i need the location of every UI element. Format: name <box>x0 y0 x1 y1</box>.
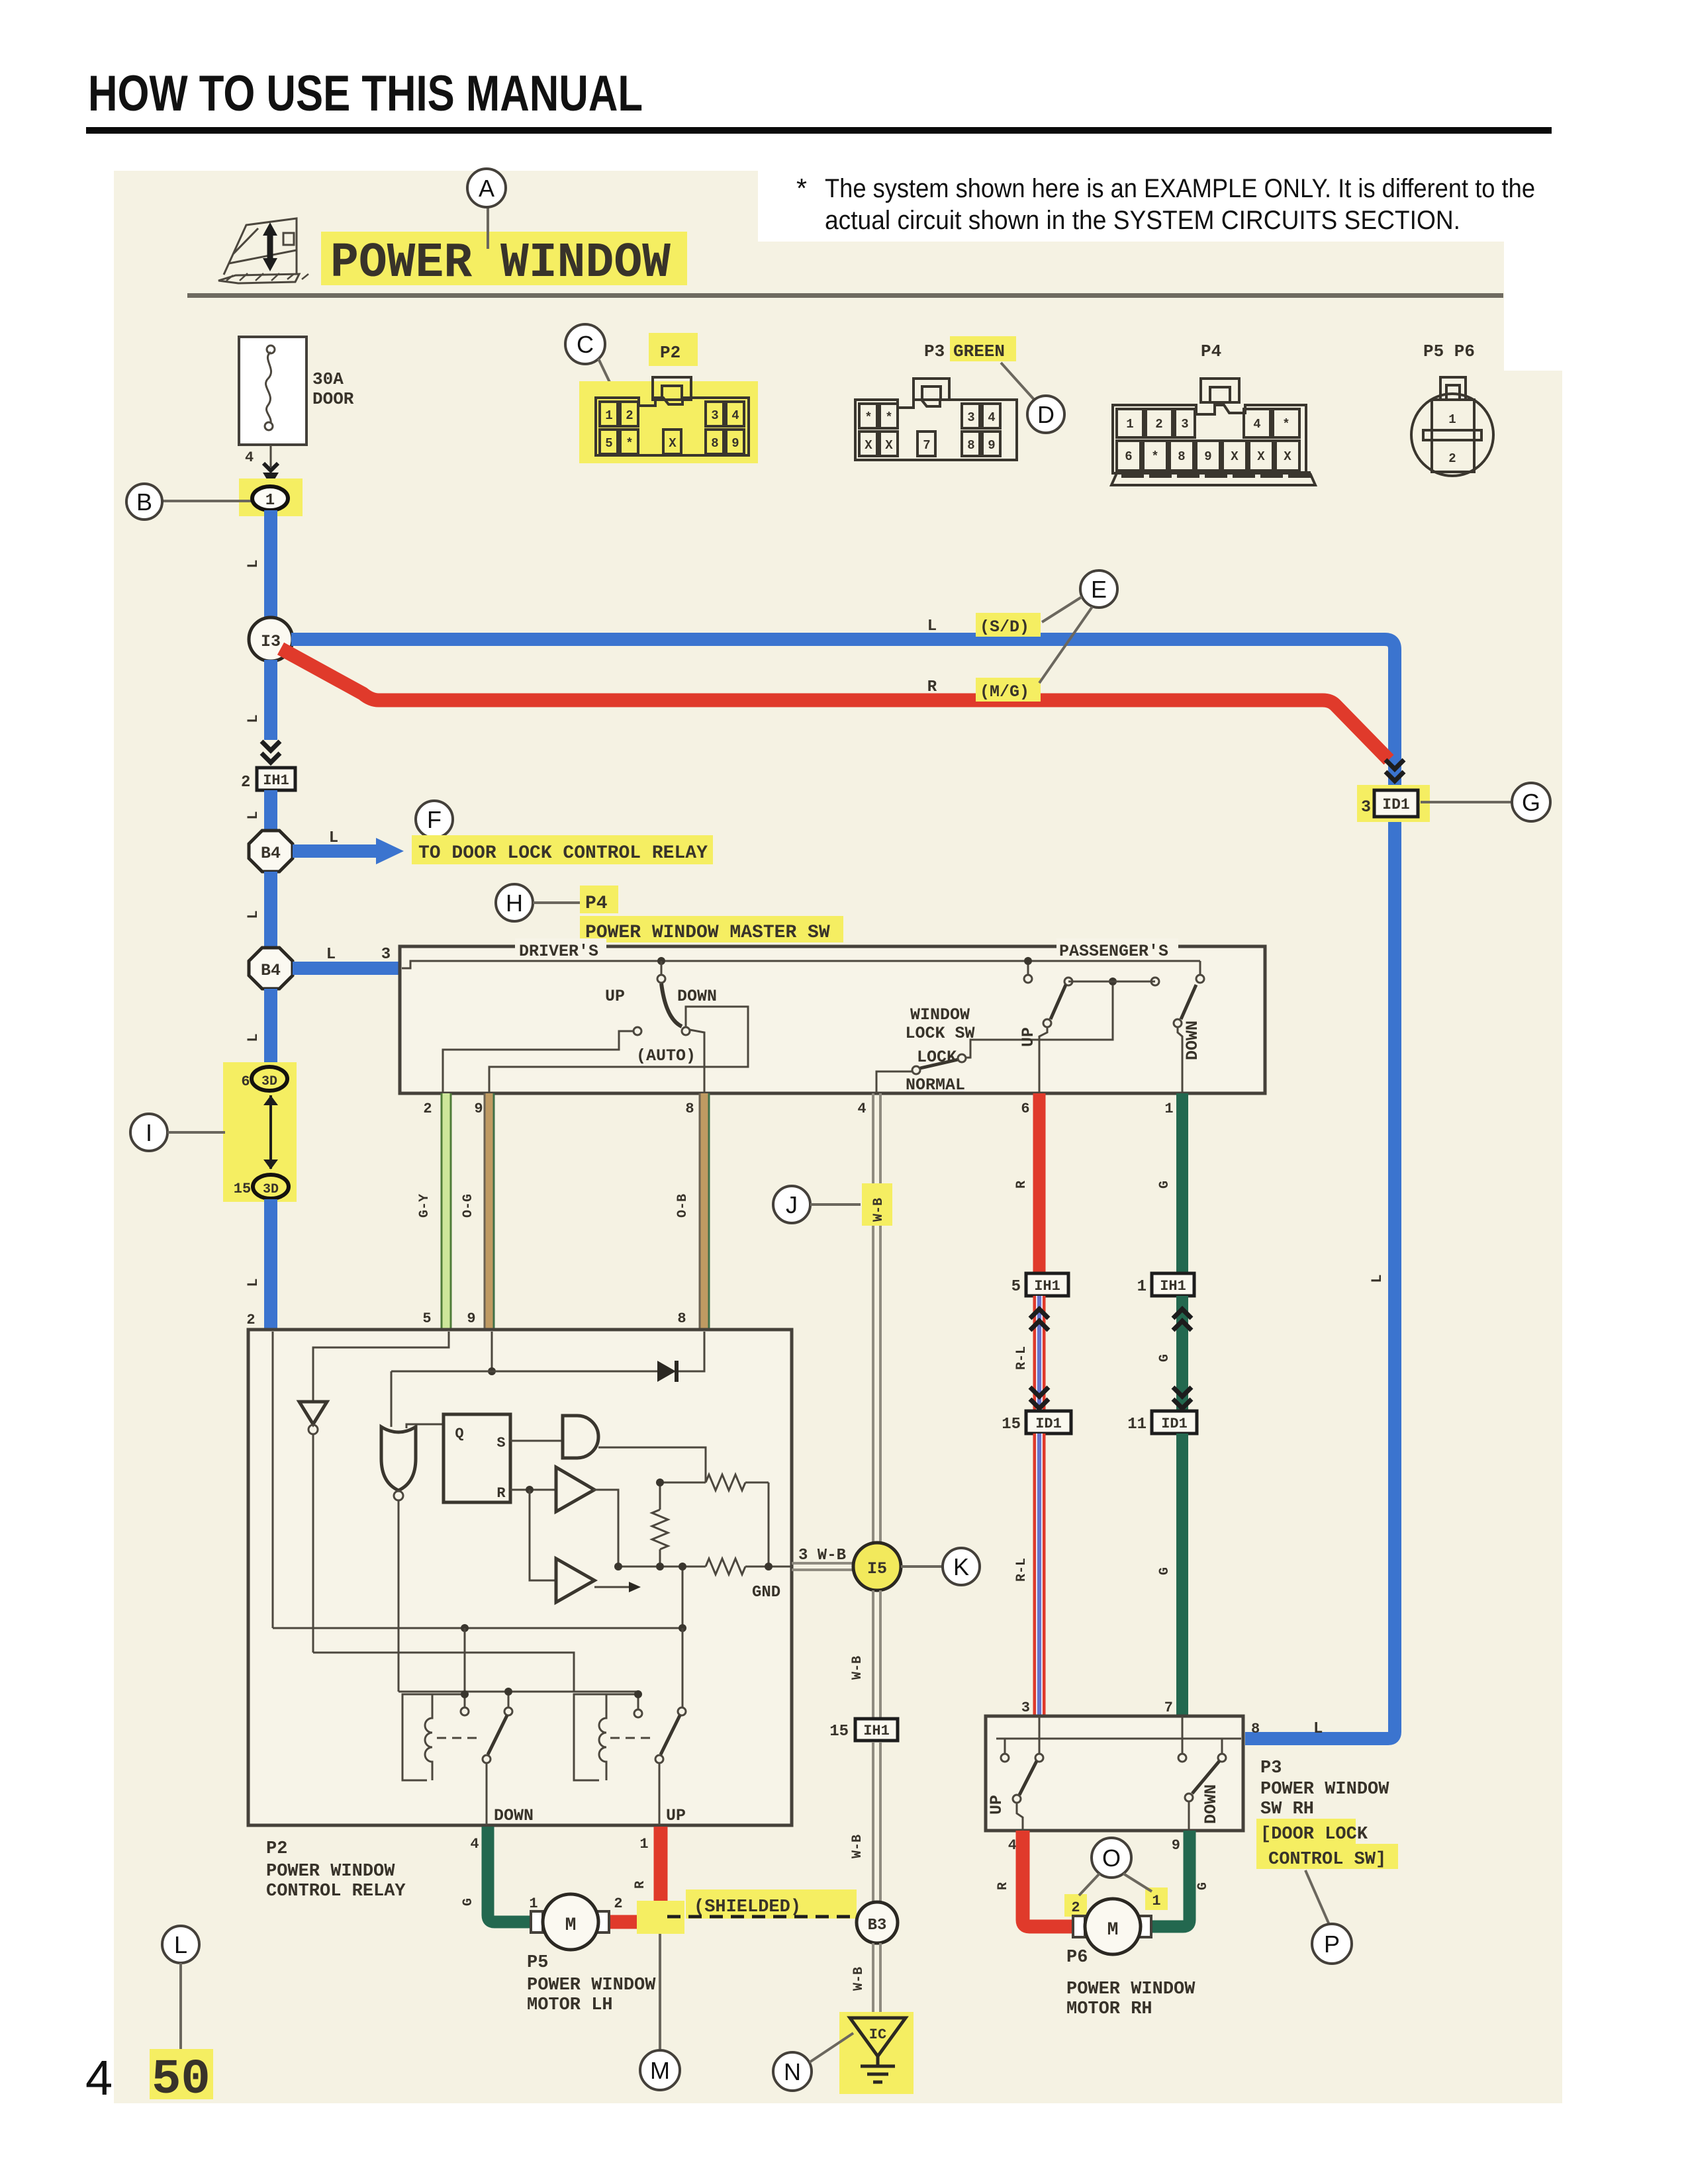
svg-text:5: 5 <box>422 1310 431 1327</box>
svg-text:G: G <box>1522 789 1540 816</box>
svg-text:2: 2 <box>1448 451 1456 466</box>
wire W-B pin4 down to I5 <box>873 1093 880 1543</box>
svg-text:4: 4 <box>988 410 995 425</box>
svg-text:1: 1 <box>605 408 612 423</box>
svg-text:*: * <box>796 173 807 203</box>
wire R-L striped ID1 down to RH switch pin 3 <box>1033 1433 1046 1716</box>
svg-text:GND: GND <box>752 1584 780 1602</box>
resistor R3 <box>706 1559 745 1574</box>
power window motor LH <box>531 1894 609 1950</box>
svg-text:2: 2 <box>614 1895 622 1912</box>
svg-text:L: L <box>326 946 336 964</box>
svg-text:[DOOR LOCK: [DOOR LOCK <box>1260 1825 1368 1844</box>
blue wire 3D down to relay pin 2 <box>264 1199 277 1330</box>
svg-text:B4: B4 <box>261 961 281 980</box>
svg-text:L: L <box>1369 1274 1385 1283</box>
circled H <box>496 884 533 921</box>
blue wire right column down to RH switch <box>1245 822 1395 1739</box>
svg-text:O-B: O-B <box>675 1194 690 1218</box>
svg-text:(AUTO): (AUTO) <box>636 1046 696 1066</box>
svg-text:4: 4 <box>1008 1837 1017 1854</box>
green wire IH1 to ID1 <box>1176 1296 1188 1410</box>
svg-text:DOOR: DOOR <box>312 389 354 409</box>
wire lock switch to passenger common <box>966 985 1113 1058</box>
relay coil L2 <box>574 1694 637 1780</box>
wire R-L striped IH1 to ID1 <box>1033 1296 1046 1410</box>
svg-text:UP: UP <box>1019 1027 1038 1047</box>
svg-text:30A: 30A <box>312 369 344 389</box>
connector P5/P6 round body <box>1411 377 1493 476</box>
chevrons above 11 ID1 <box>1173 1387 1192 1408</box>
svg-text:ID1: ID1 <box>1035 1416 1062 1432</box>
wire pin 8 to DOWN contact <box>690 1030 704 1093</box>
node I3 <box>249 617 293 661</box>
svg-text:L: L <box>927 617 937 635</box>
svg-text:W-B: W-B <box>850 1656 865 1680</box>
relay internal: latch S to AND <box>510 1440 563 1442</box>
leader I5 to K <box>901 1565 943 1568</box>
leader C to connector P2 <box>598 359 614 392</box>
svg-text:B3: B3 <box>868 1917 887 1934</box>
connector P4 body <box>1111 379 1315 485</box>
circled K <box>943 1548 980 1585</box>
OR gate <box>381 1427 416 1490</box>
svg-text:6: 6 <box>241 1073 250 1090</box>
ground yellow highlight <box>839 2012 914 2094</box>
svg-text:P6: P6 <box>1066 1948 1088 1968</box>
relay internal: AND output <box>598 1447 706 1482</box>
blue wire IH1 to B4 <box>264 790 277 829</box>
leader O to pin 2 <box>1079 1874 1100 1895</box>
motor RH pin 1 yellow tag <box>1145 1888 1168 1910</box>
svg-text:8: 8 <box>685 1101 694 1117</box>
W-B wire B3 down to ground <box>873 1943 880 2016</box>
svg-text:SW RH: SW RH <box>1260 1799 1314 1819</box>
svg-text:11: 11 <box>1127 1416 1147 1433</box>
node 15 3D lower oval <box>253 1175 289 1199</box>
svg-text:R: R <box>996 1882 1011 1890</box>
svg-text:G: G <box>1157 1181 1172 1189</box>
svg-text:*: * <box>1282 417 1289 432</box>
leader L to page ref 50 <box>179 1963 182 2052</box>
driver switch blade (auto curve) <box>661 983 682 1026</box>
svg-text:POWER WINDOW: POWER WINDOW <box>527 1976 656 1995</box>
svg-text:CONTROL SW]: CONTROL SW] <box>1268 1850 1386 1870</box>
yellow label DOOR LOCK CONTROL SW <box>1256 1819 1356 1844</box>
relay internal: junction to lower bus <box>682 1567 684 1628</box>
svg-text:MOTOR RH: MOTOR RH <box>1066 1999 1152 2019</box>
svg-text:1: 1 <box>265 492 275 510</box>
svg-text:P5 P6: P5 P6 <box>1423 341 1475 361</box>
wire UP contact to pin 4 <box>1017 1803 1023 1831</box>
circled M <box>640 2050 680 2090</box>
fuse 30A DOOR <box>239 337 306 445</box>
red wire pin 6 down to IH1 <box>1033 1093 1046 1273</box>
svg-text:D: D <box>1037 401 1055 428</box>
svg-text:POWER WINDOW: POWER WINDOW <box>330 236 671 291</box>
power window master switch box <box>400 946 1265 1093</box>
relay internal: OR output down <box>398 1500 400 1692</box>
relay switch S2 blade <box>655 1755 663 1763</box>
svg-text:1: 1 <box>1126 417 1133 432</box>
svg-text:X: X <box>1231 449 1239 464</box>
svg-text:X: X <box>1284 449 1291 464</box>
svg-text:5: 5 <box>1011 1278 1021 1296</box>
leader H to P4 label <box>533 901 583 904</box>
op-amp A2 <box>556 1559 594 1602</box>
svg-text:M: M <box>650 2057 670 2084</box>
connector P3 GREEN highlight <box>950 336 1016 361</box>
green wire relay DOWN to motor LH <box>488 1827 533 1922</box>
svg-text:POWER WINDOW: POWER WINDOW <box>266 1862 395 1882</box>
svg-text:R: R <box>633 1881 648 1889</box>
svg-text:(M/G): (M/G) <box>980 682 1029 702</box>
svg-text:S: S <box>496 1435 505 1451</box>
svg-text:R-L: R-L <box>1014 1346 1029 1370</box>
relay internal: A1 output <box>593 1490 618 1567</box>
svg-text:8: 8 <box>711 436 718 451</box>
leader E to (S/D) <box>1042 597 1082 622</box>
motor RH pin 2 yellow tag <box>1064 1894 1087 1917</box>
svg-text:7: 7 <box>1164 1700 1173 1716</box>
driver DOWN contact <box>682 1027 690 1035</box>
svg-text:7: 7 <box>923 438 930 453</box>
red wire from I3 to right column <box>281 649 1389 760</box>
window lock switch contact <box>958 1054 966 1062</box>
svg-text:(S/D): (S/D) <box>980 617 1029 637</box>
svg-text:4: 4 <box>857 1101 866 1117</box>
inverter gate <box>299 1402 327 1424</box>
svg-text:2: 2 <box>241 774 250 792</box>
svg-text:UP: UP <box>605 987 625 1006</box>
svg-text:M: M <box>565 1915 577 1936</box>
circled I <box>130 1114 167 1151</box>
driver switch pivot stub <box>661 961 663 974</box>
chevrons above 15 ID1 <box>1030 1387 1049 1408</box>
svg-text:G: G <box>1157 1567 1172 1575</box>
svg-text:2: 2 <box>1071 1899 1080 1916</box>
svg-text:R-L: R-L <box>1014 1558 1029 1582</box>
svg-text:3 W-B: 3 W-B <box>798 1547 846 1565</box>
relay internal: diode feed line <box>391 1332 704 1371</box>
svg-text:J: J <box>786 1191 798 1218</box>
window lock switch pivot <box>912 1066 920 1074</box>
svg-text:R: R <box>496 1485 506 1502</box>
relay GND output W-B wire to I5 <box>792 1563 853 1570</box>
wire DOWN loop to pin 9 <box>489 1007 748 1093</box>
yellow highlight 3D junction <box>223 1062 297 1202</box>
svg-text:ID1: ID1 <box>1382 796 1409 813</box>
chevron arrows into IH1 no2 <box>261 741 280 762</box>
relay internal: lower bus <box>273 1627 682 1629</box>
ground IC triangle <box>850 2018 906 2056</box>
circled J <box>773 1186 810 1223</box>
green wire pin 1 down to IH1 <box>1176 1093 1188 1273</box>
relay internal: latch Q to OR input <box>406 1424 444 1428</box>
svg-text:WINDOW: WINDOW <box>910 1005 970 1024</box>
node B4 upper <box>249 831 293 872</box>
svg-text:C: C <box>577 331 594 358</box>
svg-text:1: 1 <box>1164 1101 1173 1117</box>
svg-text:6: 6 <box>1125 449 1132 464</box>
circled D <box>1027 396 1064 433</box>
svg-text:IH1: IH1 <box>863 1723 890 1739</box>
green wire ID1 down to RH switch pin 7 <box>1176 1433 1188 1716</box>
relay internal: pin9 vertical <box>491 1332 493 1371</box>
svg-text:1: 1 <box>1448 412 1456 427</box>
leader GREEN to circled D <box>1001 363 1037 402</box>
yellow label TO DOOR LOCK CONTROL RELAY <box>412 835 713 864</box>
passenger DOWN blade <box>1181 985 1196 1019</box>
svg-text:15: 15 <box>829 1723 849 1741</box>
wire pin 4 to lock switch <box>876 1071 912 1093</box>
yellow page ref 50 <box>150 2049 213 2099</box>
svg-text:POWER WINDOW: POWER WINDOW <box>1260 1780 1389 1799</box>
passenger UP blade <box>1051 985 1066 1019</box>
svg-text:8: 8 <box>1251 1721 1260 1737</box>
svg-text:9: 9 <box>731 436 739 451</box>
svg-text:POWER WINDOW: POWER WINDOW <box>1066 1979 1196 1999</box>
relay internal: A2 output arrow <box>594 1586 629 1588</box>
wire fuse to node 1 with arrow <box>263 445 279 486</box>
svg-text:X: X <box>669 436 677 451</box>
svg-text:L: L <box>245 714 261 723</box>
svg-text:DOWN: DOWN <box>1183 1021 1202 1060</box>
svg-text:W-B: W-B <box>851 1967 867 1991</box>
svg-text:B: B <box>136 488 152 516</box>
red wire RH switch to motor RH <box>1023 1831 1074 1927</box>
svg-text:DOWN: DOWN <box>494 1806 534 1825</box>
svg-text:I5: I5 <box>867 1559 887 1578</box>
svg-text:6: 6 <box>1021 1101 1029 1117</box>
wire UP contact to pin 2 <box>443 1031 633 1093</box>
relay internal: pin2 vertical <box>272 1332 274 1628</box>
svg-text:W-B: W-B <box>850 1835 865 1858</box>
label PASSENGER'S <box>1056 938 1178 956</box>
shield dashed line to B3 <box>667 1915 857 1919</box>
svg-text:POWER WINDOW MASTER SW: POWER WINDOW MASTER SW <box>585 923 830 943</box>
blue horizontal wire (S/D) to right column <box>291 639 1395 786</box>
circled L <box>162 1926 199 1963</box>
SR latch box <box>444 1414 510 1502</box>
svg-text:TO DOOR LOCK CONTROL RELAY: TO DOOR LOCK CONTROL RELAY <box>418 843 708 864</box>
svg-text:ID1: ID1 <box>1161 1416 1188 1432</box>
svg-text:DOWN: DOWN <box>1201 1784 1221 1824</box>
svg-text:L: L <box>245 1033 261 1042</box>
relay internal: left branch to OR input <box>391 1371 393 1427</box>
relay internal: R1 right leg down <box>768 1482 770 1567</box>
leader to circled G <box>1421 801 1512 803</box>
svg-text:MOTOR LH: MOTOR LH <box>527 1995 613 2015</box>
svg-text:L: L <box>1313 1720 1323 1738</box>
arrow link between 3D ovals <box>263 1095 278 1169</box>
svg-text:actual circuit shown in the SY: actual circuit shown in the SYSTEM CIRCU… <box>825 206 1460 235</box>
svg-text:15: 15 <box>234 1181 251 1197</box>
window lock switch blade <box>920 1060 958 1068</box>
svg-text:8: 8 <box>677 1310 686 1327</box>
circled O <box>1092 1838 1131 1878</box>
svg-text:N: N <box>784 2058 801 2085</box>
svg-text:X: X <box>1257 449 1265 464</box>
circled G <box>1512 783 1550 821</box>
svg-text:E: E <box>1091 576 1107 603</box>
svg-text:L: L <box>245 559 261 568</box>
svg-text:1: 1 <box>529 1895 538 1912</box>
connector P2 yellow highlight <box>579 333 758 463</box>
RH switch bus stub left <box>1004 1739 1006 1754</box>
node B3 <box>857 1902 898 1943</box>
svg-text:P4: P4 <box>585 893 608 914</box>
svg-text:*: * <box>626 436 633 451</box>
svg-text:3: 3 <box>711 408 718 423</box>
leader J to W-B tag <box>810 1203 861 1206</box>
passenger bus stub left <box>1027 961 1029 974</box>
svg-text:B4: B4 <box>261 844 281 863</box>
leader door lock label to P <box>1305 1870 1329 1925</box>
svg-text:P3: P3 <box>1260 1758 1282 1778</box>
chevrons below 1 IH1 <box>1173 1309 1192 1330</box>
svg-text:3: 3 <box>1181 417 1188 432</box>
relay switch S1 contacts <box>464 1628 466 1707</box>
relay pin numbers top <box>246 1310 686 1328</box>
circled B <box>126 484 162 520</box>
connector 3 ID1 yellow highlight <box>1357 785 1430 822</box>
leader I to 3D highlight <box>167 1131 225 1134</box>
relay internal: inverter output down <box>312 1434 314 1653</box>
node 1 (power source oval) <box>252 486 288 510</box>
svg-text:2: 2 <box>1155 417 1162 432</box>
resistor R1 <box>660 1475 769 1490</box>
chevron arrows into ID1 <box>1385 760 1404 781</box>
svg-text:2: 2 <box>423 1101 432 1117</box>
svg-text:4: 4 <box>470 1836 479 1852</box>
car door icon <box>218 218 308 283</box>
relay internal: switch feed bus <box>399 1691 638 1693</box>
yellow tag (M/G) <box>976 678 1041 702</box>
RH switch bus stub right <box>1221 1739 1223 1754</box>
yellow patch on shielded corner <box>637 1901 684 1934</box>
circled A <box>467 169 506 207</box>
svg-text:L: L <box>245 811 261 819</box>
wire passenger DOWN to pin 1 <box>1178 1027 1182 1093</box>
svg-text:9: 9 <box>1204 449 1211 464</box>
leader from B to node 1 <box>162 500 252 502</box>
svg-text:UP: UP <box>987 1795 1006 1815</box>
svg-text:1: 1 <box>639 1836 648 1852</box>
GND bus to pin 3 <box>618 1566 792 1568</box>
relay internal: mid bus from inverter <box>313 1653 574 1692</box>
master switch pin numbers <box>423 1101 1173 1117</box>
circled C <box>565 324 605 364</box>
svg-text:8: 8 <box>967 438 974 453</box>
svg-text:DOWN: DOWN <box>677 987 717 1006</box>
svg-text:P2: P2 <box>266 1839 287 1859</box>
leader from A to title <box>487 207 489 249</box>
svg-text:UP: UP <box>666 1806 686 1825</box>
svg-text:IH1: IH1 <box>1160 1278 1186 1295</box>
yellow label P4 <box>580 886 618 913</box>
svg-text:O-G: O-G <box>461 1194 476 1218</box>
svg-text:3: 3 <box>967 410 974 425</box>
passenger UP contact <box>1043 1019 1051 1027</box>
wire tan pin9 to relay pin9 <box>485 1093 494 1330</box>
ground symbol bars <box>861 2056 895 2082</box>
chevrons below 5 IH1 <box>1030 1309 1049 1330</box>
svg-text:3: 3 <box>381 946 391 964</box>
blue wire I3 down to IH1 <box>264 660 277 740</box>
svg-text:X: X <box>885 438 893 453</box>
relay internal: latch R to amplifier inputs <box>510 1489 556 1491</box>
svg-text:G: G <box>1157 1354 1172 1362</box>
svg-text:3: 3 <box>1361 797 1371 817</box>
svg-text:IH1: IH1 <box>1034 1278 1060 1295</box>
circled N <box>773 2052 812 2091</box>
label DRIVER'S <box>515 938 606 956</box>
svg-text:X: X <box>865 438 872 453</box>
title underline <box>86 127 1552 134</box>
node I5 yellow <box>853 1543 901 1590</box>
svg-text:PASSENGER'S: PASSENGER'S <box>1059 942 1168 961</box>
circled F <box>416 801 453 838</box>
svg-text:*: * <box>865 410 872 425</box>
svg-text:3D: 3D <box>263 1182 279 1197</box>
mechanical link dashes S1 <box>437 1737 481 1739</box>
passenger bus stub right <box>1199 961 1201 974</box>
RH switch pivot from pin 3 <box>1039 1716 1041 1754</box>
svg-text:H: H <box>506 889 523 917</box>
svg-text:O: O <box>1102 1844 1121 1872</box>
svg-text:L: L <box>174 1931 187 1958</box>
relay internal: pin5 to inverter <box>313 1332 449 1400</box>
connector P3 body <box>855 379 1017 460</box>
power window control relay box <box>248 1330 792 1825</box>
svg-text:P: P <box>1324 1931 1340 1958</box>
driver UP contact <box>633 1027 641 1035</box>
svg-text:I3: I3 <box>261 632 281 651</box>
blue wire B4 down to 3D ovals <box>264 989 277 1068</box>
resistor R2 vertical <box>652 1482 668 1567</box>
svg-text:4: 4 <box>1253 417 1260 432</box>
svg-text:DRIVER'S: DRIVER'S <box>519 942 598 961</box>
svg-text:*: * <box>885 410 892 425</box>
svg-text:3D: 3D <box>261 1074 277 1089</box>
svg-text:LOCK SW: LOCK SW <box>905 1024 974 1043</box>
connector P4 pin numbers <box>1125 417 1291 464</box>
svg-text:3: 3 <box>1021 1700 1030 1716</box>
AND gate <box>563 1416 598 1458</box>
master switch internal top bus <box>402 961 1200 968</box>
passenger common link <box>1068 981 1155 983</box>
svg-text:NORMAL: NORMAL <box>906 1075 965 1095</box>
svg-text:K: K <box>953 1553 969 1580</box>
W-B wire IH1 down to B3 <box>873 1742 880 1903</box>
mechanical link dashes S2 <box>610 1737 654 1739</box>
yellow tag W-B on wire <box>862 1183 892 1226</box>
blue wire B4 to B4 <box>264 872 277 946</box>
relay switch S2 contacts <box>637 1692 639 1709</box>
label (SHIELDED) yellow <box>686 1889 857 1919</box>
svg-text:L: L <box>245 1278 261 1287</box>
svg-text:G: G <box>1196 1882 1211 1890</box>
svg-text:2: 2 <box>246 1312 255 1328</box>
circled E <box>1080 570 1117 608</box>
junction dot passenger common <box>1109 978 1117 985</box>
RH switch internal bus <box>996 1738 1241 1740</box>
power window motor RH <box>1073 1899 1151 1954</box>
blue wire B4 to master switch pin 3 <box>293 962 400 975</box>
wire DOWN contact to pin 9 <box>1188 1801 1190 1831</box>
wire tan pin8 to relay pin8 <box>700 1093 709 1330</box>
